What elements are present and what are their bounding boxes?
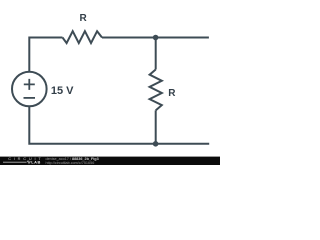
node B junction dot (bottom) [153,141,159,147]
wire top-left: from voltage source top up and right to resistor R1 [29,38,62,72]
footer bar [0,157,220,165]
resistor R1 zigzag (top, horizontal) [63,31,103,43]
wire below R2 down to bottom node [155,110,157,143]
footer CircuitLab logo: underline wire with pulse symbol [3,161,31,164]
voltage source V1 circle [12,72,47,107]
wire bottom: from bottom-left corner to right edge stub [29,106,209,144]
wire right branch down: node A to resistor R2 [155,38,157,70]
svg-text:http://circuitlab.com/c/751656: http://circuitlab.com/c/751656 [46,161,95,165]
voltage source plus sign [24,79,35,90]
voltage source minus sign [24,97,36,99]
node A junction dot (top) [153,35,159,41]
svg-text:R: R [168,88,176,99]
svg-text:LAB: LAB [31,160,41,165]
svg-text:R: R [80,13,88,24]
resistor R2 zigzag (vertical) [150,70,162,111]
svg-text:15 V: 15 V [51,85,74,97]
wire top-right: from R1 to right edge stub through node A [102,37,209,39]
